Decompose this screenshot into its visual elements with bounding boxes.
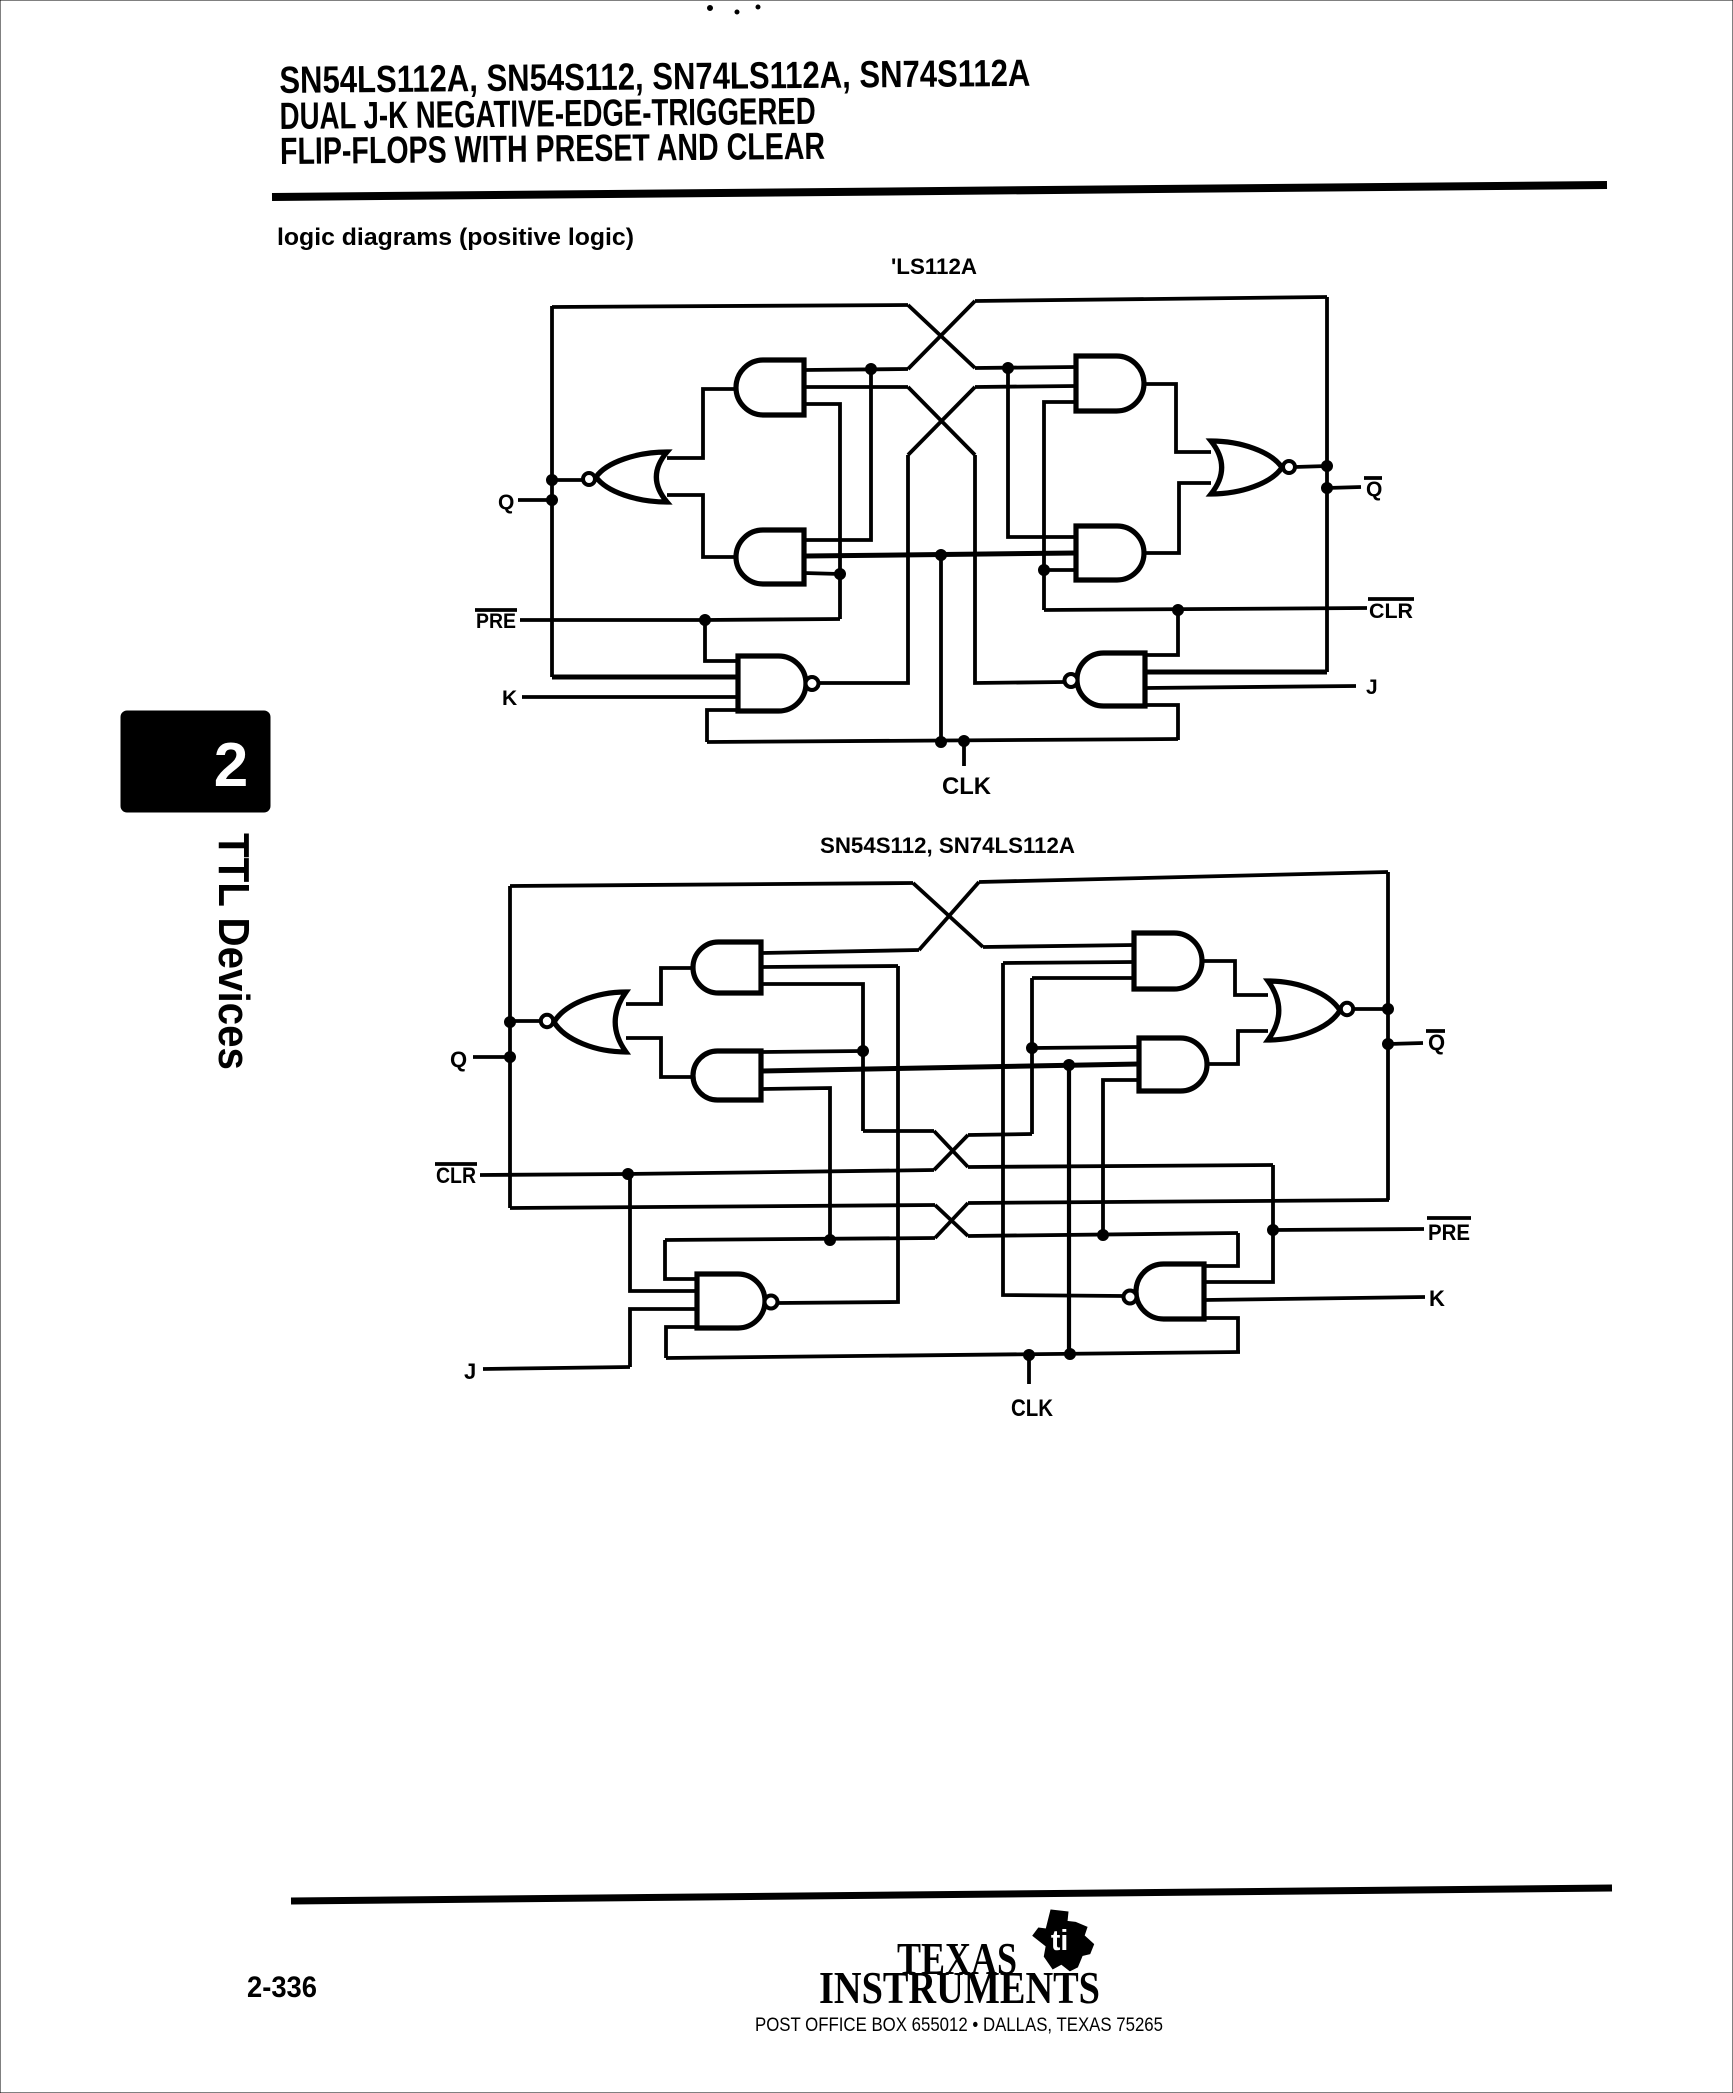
wire: G2 input 1 from Qbar cross-couple — [804, 369, 908, 370]
wire: CLK distribution line — [707, 739, 1178, 742]
svg-text:Q: Q — [450, 1047, 467, 1072]
svg-text:Q: Q — [1366, 478, 1382, 501]
node: clock run junction — [936, 550, 947, 561]
node: PRE riser junction at H3 input 1 — [858, 1046, 869, 1057]
wire: Q cross-couple to AND H5 input 1 — [983, 945, 1134, 947]
wire: bottom right frame run — [968, 1200, 1389, 1203]
wire: mid X upper diagonal — [934, 1131, 968, 1167]
wire: J riser to H7 input 3 — [630, 1309, 697, 1367]
svg-text:FLIP-FLOPS WITH PRESET AND CLE: FLIP-FLOPS WITH PRESET AND CLEAR — [280, 126, 825, 173]
NAND gate H7 (J input gate) — [697, 1274, 765, 1328]
wire: G8 clock entry under-route — [1143, 705, 1178, 740]
wire: H8 clock entry under-route — [1202, 1318, 1238, 1352]
wire: G3 input 3 — [804, 573, 840, 574]
AND gate H2 (upper left) — [693, 942, 761, 993]
wire: CLR branch to NAND H7 input 2 — [630, 1174, 697, 1291]
CLK pin stub — [962, 741, 966, 766]
wire: G5 input 3 / CLR riser — [1044, 402, 1076, 610]
wire: top left frame run — [510, 883, 913, 886]
svg-text:CLK: CLK — [1011, 1395, 1054, 1422]
wire: H1 output to Q rail — [510, 1019, 540, 1023]
NOR gate G1 (Q latch, output to Q) — [596, 452, 667, 502]
wire: J NAND output riser — [975, 455, 1064, 683]
PRE pin lead — [1273, 1229, 1424, 1230]
wire: H2 input 3 / PRE riser — [761, 984, 863, 1131]
wire: CLR riser right — [1030, 978, 1034, 1134]
K pin lead — [1204, 1297, 1425, 1300]
node: Q output junction — [505, 1017, 516, 1028]
node: CLK junction left — [936, 737, 947, 748]
wire: branch down to AND G3 input 1 — [806, 369, 871, 540]
wire: top left cross-couple run — [552, 305, 908, 307]
wire: G1 output to Q rail — [552, 478, 583, 482]
wire: CLK distribution line — [666, 1352, 1240, 1358]
NOR gate G7 (Qbar latch) — [1211, 441, 1282, 494]
wire: H1 bottom input from AND H3 — [626, 1038, 693, 1077]
wire: bottom X diagonal a — [935, 1205, 968, 1236]
wire: top X diagonal a — [913, 883, 983, 947]
wire: clock distribution run — [761, 1064, 1139, 1071]
wire: H3 input 3 / Qbar feedback riser — [761, 1088, 830, 1240]
NOR gate H9 (Qbar latch) — [1268, 981, 1340, 1040]
node: PRE junction — [700, 615, 711, 626]
svg-text:CLK: CLK — [942, 773, 992, 800]
wire: right feedback rail (Qbar side) — [1325, 297, 1329, 672]
wire: left feedback rail (Q side) — [508, 886, 512, 1208]
svg-text:J: J — [464, 1359, 476, 1384]
wire: K NAND output riser — [818, 455, 908, 683]
node: Q pin junction — [505, 1052, 516, 1063]
wire: G2 input 2 to lower X — [804, 385, 908, 389]
svg-text:K: K — [502, 687, 517, 710]
wire: G5 input 1 from Q cross-couple — [975, 367, 1076, 368]
svg-text:INSTRUMENTS: INSTRUMENTS — [819, 1962, 1100, 2013]
wire: H7 input 1 entry — [665, 1240, 697, 1279]
CLK pin stub — [1027, 1355, 1031, 1384]
wire: NAND H4 output riser — [777, 966, 898, 1303]
node: junction to H6 riser — [1098, 1230, 1109, 1241]
node: CLK riser junction — [1065, 1349, 1076, 1360]
svg-text:Q: Q — [498, 491, 514, 514]
wire: K NAND output to AND G5 input — [975, 386, 1076, 387]
svg-text:SN54S112, SN74LS112A: SN54S112, SN74LS112A — [820, 833, 1075, 858]
wire: clock riser to CLK line — [939, 555, 943, 742]
svg-text:Q: Q — [1428, 1030, 1445, 1055]
wire: Qbar rail feedback to NAND G8 input 2 — [1145, 670, 1327, 675]
NAND gate H8 (K input gate) — [1136, 1264, 1204, 1319]
wire: H7 clock entry under-route — [666, 1327, 699, 1358]
AND gate G2 (upper left) — [736, 360, 804, 415]
Q pin lead — [518, 498, 552, 502]
wire: H5 input 3 — [1032, 976, 1134, 980]
wire: PRE corner down to junction — [1271, 1165, 1275, 1230]
wire: NAND H8 output riser — [1003, 963, 1124, 1296]
node: PRE riser junction at G3 input 3 — [835, 569, 846, 580]
wire: Qbar feedback run to NAND H7 — [665, 1238, 935, 1240]
node: CLR junction — [623, 1169, 634, 1180]
wire: G5 output to NOR G7 — [1143, 384, 1211, 452]
wire: top X diagonal b — [919, 882, 979, 950]
wire: right feedback rail (Qbar side) — [1386, 872, 1390, 1200]
PRE lead — [520, 618, 705, 622]
wire: top cross X diagonal a — [908, 305, 975, 368]
J pin lead — [483, 1367, 630, 1369]
wire: H5 output to NOR H9 — [1202, 961, 1268, 995]
wire: Qbar cross-couple to AND H2 input 1 — [761, 950, 919, 953]
wire: G7 output to Qbar rail — [1295, 466, 1327, 467]
wire: H6 output to NOR H9 — [1206, 1031, 1268, 1064]
AND gate G5 (upper right) — [1076, 356, 1144, 411]
NAND gate G4 (K input gate) — [738, 656, 806, 711]
svg-text:CLR: CLR — [436, 1163, 476, 1188]
svg-text:TTL Devices: TTL Devices — [209, 833, 258, 1070]
wire: top right cross-couple run — [975, 297, 1327, 301]
wire: CLR swap run right — [968, 1134, 1032, 1135]
wire: H8 input 1 entry — [1204, 1233, 1238, 1266]
wire: H5 input 2 from NAND H8 output riser — [1003, 962, 1134, 963]
wire: top cross X diagonal b — [908, 301, 975, 369]
scan specks top of page — [708, 6, 713, 11]
wire: riser to AND H6 input 3 — [1103, 1080, 1139, 1235]
wire: Q feedback run to NAND H8 — [968, 1233, 1238, 1236]
svg-text:2: 2 — [214, 731, 248, 800]
footer rule — [291, 1888, 1612, 1901]
svg-text:J: J — [1366, 676, 1378, 699]
K pin lead to NAND G4 input 3 — [522, 695, 738, 699]
wire: lower X diagonal a — [908, 387, 975, 455]
AND gate H5 (upper right) — [1134, 933, 1202, 989]
node: CLK pin junction — [959, 736, 970, 747]
node: clock junction — [1064, 1060, 1075, 1071]
node: Qbar feedback junction — [825, 1235, 836, 1246]
Qbar pin lead — [1327, 487, 1361, 488]
svg-text:K: K — [1429, 1286, 1445, 1311]
wire: PRE branch to NAND G4 input 1 — [705, 620, 738, 661]
wire: left feedback rail (Q side) — [550, 306, 554, 677]
wire: G6 input 3 — [1044, 568, 1076, 572]
node: CLR riser junction at G6 input 3 — [1039, 565, 1050, 576]
svg-text:CLR: CLR — [1369, 600, 1413, 623]
NOR gate H1 (Q latch) — [554, 992, 626, 1052]
wire: Q rail feedback to NAND G4 input 2 — [552, 675, 738, 680]
wire: lower X diagonal b — [908, 387, 975, 455]
wire: G2 input 3 / PRE riser — [804, 404, 840, 619]
wire: bottom X diagonal b — [935, 1203, 968, 1238]
NAND gate G8 (J input gate) — [1077, 653, 1145, 706]
wire: H3 input 1 — [761, 1051, 863, 1052]
wire: PRE to riser corner — [705, 619, 840, 620]
wire: H1 top input from AND H2 — [626, 968, 692, 1004]
svg-text:PRE: PRE — [476, 610, 516, 633]
wire: top right frame run — [979, 872, 1388, 882]
svg-text:logic diagrams (positive logic: logic diagrams (positive logic) — [277, 224, 634, 251]
AND gate H3 (lower left) — [693, 1051, 761, 1100]
wire: PRE swap run left — [863, 1129, 934, 1133]
wire: CLR line — [1044, 608, 1367, 610]
svg-text:POST OFFICE BOX 655012 • DALLA: POST OFFICE BOX 655012 • DALLAS, TEXAS 7… — [755, 2015, 1163, 2036]
node: Qbar output junction — [1322, 461, 1333, 472]
node: PRE junction — [1268, 1225, 1279, 1236]
node: CLR junction — [1173, 605, 1184, 616]
AND gate G3 (lower left) — [736, 530, 804, 584]
svg-text:2-336: 2-336 — [247, 1971, 317, 2004]
node: junction on Q cross-couple — [1003, 363, 1014, 374]
AND gate H6 (lower right) — [1139, 1038, 1207, 1091]
TI Texas-map emblem — [1033, 1910, 1094, 1971]
wire: branch down to AND G6 input 1 — [1008, 368, 1076, 537]
CLR pin lead — [480, 1174, 628, 1175]
node: CLR riser junction at H6 input 1 — [1027, 1043, 1038, 1054]
wire: H9 output to Qbar rail — [1353, 1007, 1388, 1011]
wire: CLR run right — [628, 1170, 934, 1174]
node: junction on Qbar cross-couple — [866, 364, 877, 375]
wire: G6 output to NOR G7 — [1143, 483, 1211, 553]
node: Qbar pin junction — [1383, 1039, 1394, 1050]
wire: G1 top input from AND G2 — [667, 389, 735, 458]
wire: PRE branch to NAND H8 input 2 — [1204, 1230, 1273, 1282]
svg-text:PRE: PRE — [1428, 1220, 1470, 1245]
chapter tab 2 — [121, 711, 270, 812]
wire: CLK riser — [1067, 1065, 1071, 1354]
wire: G1 bottom input from AND G3 — [667, 495, 737, 557]
Q pin lead — [473, 1055, 510, 1059]
wire: H2 input 2 from NAND H4 output riser — [761, 966, 898, 967]
node: CLK pin junction — [1024, 1350, 1035, 1361]
AND gate G6 (lower right) — [1076, 526, 1144, 580]
node: Q output junction — [547, 475, 558, 486]
svg-text:'LS112A: 'LS112A — [891, 254, 977, 279]
wire: bottom left frame run — [510, 1205, 935, 1208]
wire: PRE run right — [968, 1165, 1273, 1167]
wire: clock distribution run (left) — [806, 553, 1076, 556]
wire: mid X lower diagonal — [934, 1135, 968, 1170]
wire: H6 input 1 — [1032, 1047, 1139, 1048]
svg-text:ti: ti — [1051, 1925, 1068, 1957]
Qbar pin lead — [1388, 1043, 1423, 1044]
header rule — [272, 185, 1607, 197]
wire: CLR branch to NAND G8 input 1 — [1145, 610, 1178, 655]
node: Qbar output junction — [1383, 1004, 1394, 1015]
J pin lead to NAND G8 input 3 — [1145, 686, 1356, 688]
wire: G4 clock entry under-route — [707, 710, 740, 742]
node: Qbar pin junction — [1322, 483, 1333, 494]
node: Q pin junction — [547, 495, 558, 506]
